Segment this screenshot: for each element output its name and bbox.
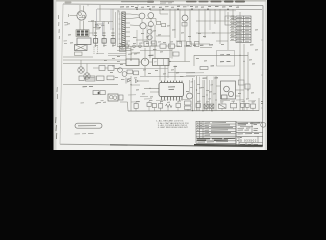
label 4T: [149, 54, 154, 56]
resistor R30: [159, 104, 163, 109]
extra bottom-mid short wires: [128, 95, 256, 102]
J1 cell text smudges: [237, 17, 250, 41]
connector stack J1: [236, 16, 251, 43]
wire y46: [117, 45, 180, 47]
cap C11: [147, 103, 151, 107]
border tick marks: [88, 4, 263, 108]
diode CR2: [122, 72, 127, 77]
svg-text:4. LAST REF DESIG USED R47: 4. LAST REF DESIG USED R47: [158, 126, 189, 129]
reference row text: [198, 141, 229, 144]
vertical drop wires from top bus: [170, 9, 233, 58]
component row y46 extras: [133, 45, 136, 48]
border frame top: [63, 4, 263, 6]
caps C14 C15 X: [204, 104, 214, 108]
caps C18 C19: [241, 103, 245, 107]
svg-text:D 033502: D 033502: [240, 138, 257, 142]
background black bands: [0, 0, 326, 150]
junction dot: [98, 92, 100, 94]
SCHEMATIC CONTENT: [63, 5, 262, 79]
transistor Q3: [140, 23, 146, 29]
relay K1 box: [77, 38, 91, 45]
relay box row: box B1: [126, 59, 139, 66]
size letter cell: [240, 136, 242, 138]
row y76 box B: [97, 76, 105, 81]
J2 pin stubs: [125, 14, 130, 45]
resistor R1: [75, 52, 83, 55]
labels 12F: [203, 77, 219, 79]
box near J1: [225, 16, 234, 25]
capacitor C3 row boxes: [99, 66, 105, 71]
diode CR5: [126, 78, 131, 84]
pill caption text: [75, 132, 94, 135]
transistor Q6a: [147, 35, 152, 40]
resistor R15: [93, 91, 99, 95]
top bus parallel line: [150, 10, 236, 12]
right margin mark: [261, 102, 263, 104]
NOTES text block: [156, 120, 189, 130]
relay K1 contact box with X: [75, 45, 88, 51]
dashed link K1: [94, 47, 98, 55]
bus junction dots: [136, 8, 229, 10]
dark designation strip: [197, 138, 235, 140]
vertical feeders: [116, 10, 119, 46]
row y76 box A: [79, 76, 84, 81]
left margin vertical text marks: [56, 15, 60, 139]
vertical x131: [130, 76, 132, 111]
transistor Q4: [148, 22, 153, 27]
K2 side terminals: [119, 95, 123, 100]
ladder contact dashes: [94, 33, 115, 36]
component row y46 circles: [119, 45, 122, 48]
heavy title bottom line: [194, 144, 263, 147]
company name lines: [237, 123, 260, 145]
right margin small boxes: [239, 80, 245, 85]
box around +5 labels: [217, 51, 235, 67]
top edge shadow: [56, 0, 266, 2]
right-center vertical wires: [193, 76, 217, 111]
bottom row comp: cap C10: [134, 104, 138, 109]
vertical right stub: [258, 98, 260, 111]
wire y18 right: [196, 20, 232, 22]
resistor R5: [157, 22, 161, 25]
border frame left: [60, 4, 63, 144]
wire y84: [63, 84, 118, 86]
fuse block F1 hatched: [76, 30, 89, 37]
double wire left: [96, 53, 126, 55]
IC U1: [159, 81, 184, 100]
resistor R12: [134, 71, 139, 75]
bottom row labels: [136, 100, 255, 102]
revision table columns: [199, 121, 203, 138]
label under K2: [97, 101, 107, 103]
ladder rungs: [88, 22, 113, 25]
row y76 box C: [107, 76, 114, 80]
wire labels top row: [120, 6, 239, 7]
wire mid-left bus B: [63, 63, 126, 65]
bottom bus wire: [128, 110, 259, 113]
component stubs to bus: [136, 101, 253, 111]
cap C13: [176, 103, 180, 107]
J2 left marks: [119, 14, 121, 44]
page sheet: [54, 0, 268, 150]
row y76 hatched box: [86, 76, 96, 81]
resistor R11: [127, 70, 133, 74]
pill callout: [75, 123, 102, 128]
sheet header text dark top right: [65, 1, 246, 4]
contact boxes K row: [160, 44, 166, 48]
wires above IC: [140, 58, 195, 78]
rotary switch S1: [141, 58, 149, 66]
revision table rows: [196, 124, 236, 136]
wire lamps stub: [81, 60, 87, 73]
bus left stub: [120, 102, 128, 111]
+5L +5E labels: [220, 55, 231, 62]
left border marks: [64, 22, 69, 43]
wire mid-left bus A: [63, 59, 126, 61]
TP label text: [83, 85, 94, 87]
resistor row y41: [144, 41, 199, 47]
transistor Q1: [139, 13, 145, 19]
title block right frame: [236, 122, 263, 146]
component under crystal: [182, 23, 187, 27]
transistor drop wires: [137, 27, 151, 46]
section box outline: [194, 12, 248, 98]
extra vertical drops: [210, 9, 225, 30]
wire y33 right: [196, 32, 240, 34]
revision row texts: [197, 123, 233, 136]
misc scattered value texts: [67, 21, 258, 99]
resistor R20: [200, 67, 208, 70]
relay K2 with contacts: [108, 94, 118, 101]
cap C12: [152, 104, 156, 108]
+5 label row texts: [186, 44, 213, 47]
regulator box U2: [221, 81, 236, 99]
strip terminator box: [120, 47, 126, 52]
Q leads: [130, 14, 152, 26]
U1 inner label: [168, 87, 175, 90]
label 2.7: [211, 65, 215, 67]
wires around U2: [216, 83, 244, 111]
crystal Y1: [182, 9, 188, 28]
revision oval stamp: [261, 122, 266, 127]
lamp DS1: [78, 67, 84, 73]
wire T1 to fuse block: [80, 20, 84, 30]
T1 primary lead: [69, 14, 77, 17]
border frame right: [262, 6, 264, 147]
transistor Q2: [148, 13, 154, 19]
label RY1: [128, 53, 137, 55]
top bus wire: [97, 8, 262, 10]
cap C16: [219, 104, 227, 108]
resistor R32: [196, 103, 200, 107]
transistor Q5a: [147, 29, 152, 34]
resistor R16: [100, 91, 105, 95]
extra vertical feeders left of J2: [118, 10, 120, 46]
faint small text marks: [81, 101, 104, 104]
relay box B2: [153, 59, 170, 66]
mid small box: [173, 52, 179, 56]
extra ladder verticals: [97, 9, 112, 36]
extra junction speckles: [99, 17, 248, 111]
connector J1 feed wires: [230, 17, 236, 40]
wires into IC: [131, 81, 159, 92]
diode CR6: [136, 80, 139, 83]
border frame bottom: [60, 143, 110, 146]
wires linking mid area: [126, 25, 185, 81]
U1 pin dots: [161, 99, 183, 101]
TITLE BLOCK: [196, 121, 236, 138]
diode CR1: [118, 68, 123, 73]
revision table frame: [196, 121, 236, 138]
connector strip J2: [122, 12, 125, 46]
extra mid wires: [63, 9, 228, 57]
resistor R6: [162, 24, 166, 27]
wire y68.5: [115, 67, 168, 69]
wire y27: [93, 27, 100, 29]
wire y60 right: [139, 61, 190, 64]
ladder verticals: [96, 5, 114, 47]
label plus5: [174, 65, 178, 67]
small labels cluster: [112, 58, 137, 79]
wire y50.5: [140, 49, 172, 51]
reference row: [196, 138, 236, 143]
lamp DS2: [84, 73, 90, 79]
transformer T1: [77, 5, 86, 20]
cap C17: [231, 103, 237, 108]
wires to them: [93, 68, 120, 69]
transistor Q5: [187, 93, 193, 99]
B2 inner marks: [154, 59, 164, 66]
components near Q5: [185, 101, 192, 105]
faint top-mid schematic text: [160, 2, 172, 4]
cap C20: [251, 104, 256, 108]
J1 pin labels column: [231, 16, 235, 40]
fuse contacts F2 F3 F4: [94, 39, 98, 44]
resistor R31 zigzag: [166, 104, 173, 107]
